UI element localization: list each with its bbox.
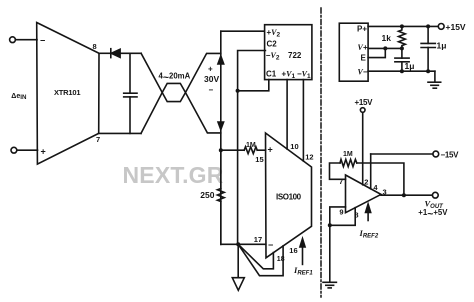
capacitor 1u right xyxy=(421,26,435,71)
wire E row xyxy=(368,48,385,57)
node junction cap2 top xyxy=(426,24,430,28)
svg-text:8: 8 xyxy=(354,210,358,219)
wire C1 branch xyxy=(238,80,269,91)
input terminal plus xyxy=(11,147,17,153)
svg-text:+: + xyxy=(41,147,46,157)
op-amp XTR101 body xyxy=(37,23,99,165)
svg-text:30V: 30V xyxy=(204,74,219,84)
svg-text:16: 16 xyxy=(289,246,297,255)
IC 722 box xyxy=(265,25,312,80)
node junction pin17 xyxy=(236,242,240,246)
svg-text:2: 2 xyxy=(364,178,368,187)
input terminal minus xyxy=(10,37,16,43)
svg-text:3: 3 xyxy=(383,187,387,196)
resistor R 1M feedback xyxy=(330,159,404,195)
svg-text:ISO100: ISO100 xyxy=(276,193,302,202)
svg-text:18: 18 xyxy=(277,256,285,263)
diode D1 xyxy=(99,49,141,58)
svg-text:−: − xyxy=(268,240,273,250)
wire pin9 loop xyxy=(330,207,355,225)
wire crossing line A xyxy=(141,53,221,133)
svg-text:P+: P+ xyxy=(357,25,367,34)
svg-text:E: E xyxy=(361,54,367,63)
wire V+ row xyxy=(368,47,402,49)
svg-text:C1: C1 xyxy=(266,70,277,79)
wire P+ rail xyxy=(368,25,438,27)
svg-text:15: 15 xyxy=(255,155,263,164)
svg-text:1M: 1M xyxy=(246,142,256,149)
terminal -15V xyxy=(433,151,439,157)
svg-text:ΔeIN: ΔeIN xyxy=(11,93,27,101)
svg-text:−: − xyxy=(40,36,45,46)
wire +V1 to pin10 xyxy=(286,80,288,149)
svg-text:+15V: +15V xyxy=(446,22,466,32)
svg-text:1k: 1k xyxy=(382,33,392,43)
wire -V2 vertical xyxy=(238,51,266,245)
arrow IREF1 xyxy=(300,239,305,265)
wire pin4 vertical xyxy=(370,154,372,189)
svg-text:−15V: −15V xyxy=(441,150,460,159)
node junction 30V/1M xyxy=(219,148,223,152)
node junction pin9 loop xyxy=(328,223,332,227)
svg-text:+: + xyxy=(208,65,213,74)
separator dash-dot line xyxy=(320,8,322,297)
wire 30V rail to +V2 xyxy=(221,30,264,32)
svg-text:722: 722 xyxy=(288,51,302,60)
svg-text:NEXT.GR: NEXT.GR xyxy=(123,162,224,188)
terminal +15V top xyxy=(438,24,444,30)
svg-text:V+: V+ xyxy=(358,43,368,52)
IC power box P+ xyxy=(339,23,368,81)
capacitor 1u left xyxy=(395,48,409,71)
wire -V1 to pin12 xyxy=(302,80,304,161)
svg-text:C2: C2 xyxy=(267,39,278,48)
ground earth opamp xyxy=(323,282,336,288)
wire pin7 to crossing xyxy=(99,132,141,134)
svg-text:+15V: +15V xyxy=(355,98,374,107)
ground ISO100 xyxy=(232,278,244,291)
node junction V+/1k xyxy=(400,46,404,50)
svg-text:12: 12 xyxy=(305,152,313,161)
wire ground stem ISO100 xyxy=(237,244,239,277)
svg-text:1μ: 1μ xyxy=(437,41,447,51)
wire pin16 xyxy=(238,244,283,275)
arrow 30V down xyxy=(218,122,224,130)
node junction V+/E xyxy=(383,46,387,50)
wire output row xyxy=(381,194,432,196)
node junction V-/cap1 xyxy=(400,69,404,73)
wire crossing line B xyxy=(141,53,221,133)
node junction 1k top xyxy=(400,24,404,28)
svg-text:7: 7 xyxy=(96,135,100,144)
wire -15V row xyxy=(371,153,433,155)
node junction C1 xyxy=(236,89,240,93)
wire input minus to XTR101 xyxy=(15,39,37,41)
svg-text:1μ: 1μ xyxy=(405,61,415,71)
terminal VOUT xyxy=(432,192,438,198)
svg-text:1M: 1M xyxy=(343,151,353,158)
arrow 30V up xyxy=(218,56,224,64)
svg-text:XTR101: XTR101 xyxy=(54,88,80,97)
wire 30V rail vertical xyxy=(220,31,222,244)
svg-text:10: 10 xyxy=(290,142,298,151)
terminal +15V opamp xyxy=(360,108,365,113)
current loop hexagon xyxy=(162,83,185,101)
svg-text:+: + xyxy=(268,145,273,155)
svg-text:9: 9 xyxy=(339,208,343,217)
node junction V-/cap2 xyxy=(426,69,430,73)
wire input plus to XTR101 xyxy=(17,149,38,151)
wire V- row xyxy=(368,70,435,72)
svg-text:17: 17 xyxy=(254,235,262,244)
svg-text:8: 8 xyxy=(93,42,97,51)
resistor R 1M input xyxy=(221,147,266,154)
ground earth top-right xyxy=(428,71,441,88)
wire ground stem opamp xyxy=(329,225,331,282)
capacitor C xyxy=(124,53,137,133)
resistor R 1k xyxy=(399,26,406,48)
wire pin18 xyxy=(238,244,273,268)
svg-text:7: 7 xyxy=(339,177,343,186)
op-amp ISO100 body xyxy=(266,133,312,258)
svg-text:250: 250 xyxy=(200,190,214,200)
svg-text:V−: V− xyxy=(358,68,368,77)
svg-text:−: − xyxy=(209,86,214,95)
arrow IREF2 xyxy=(366,204,371,221)
wire +15V to pin2 xyxy=(362,113,364,185)
resistor R 250 xyxy=(217,150,224,244)
wire pin17 row xyxy=(221,243,266,245)
op-amp U2 body xyxy=(346,175,382,213)
node junction output/feedback xyxy=(402,193,406,197)
